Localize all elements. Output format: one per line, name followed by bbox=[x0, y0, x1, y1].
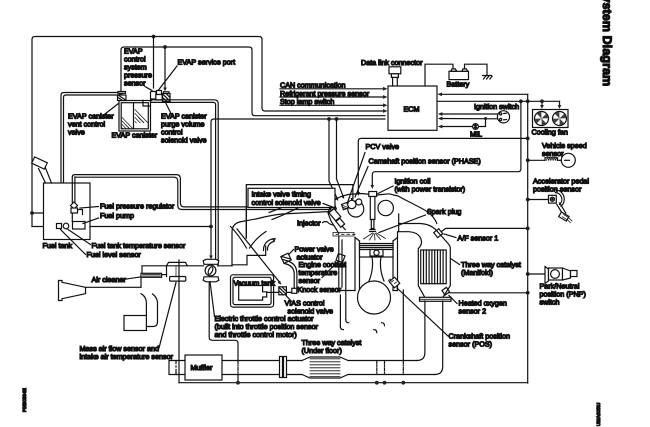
fan drop 1 bbox=[541, 101, 543, 106]
svg-text:valve: valve bbox=[68, 128, 85, 137]
wire to purge solenoid bbox=[164, 47, 166, 89]
svg-text:(Manifold): (Manifold) bbox=[461, 268, 493, 277]
arrow into fuel pump bbox=[85, 225, 89, 229]
svg-text:Stop lamp switch: Stop lamp switch bbox=[280, 97, 334, 106]
svg-text:sensor (POS): sensor (POS) bbox=[449, 340, 493, 349]
right rail bbox=[527, 94, 529, 383]
wire battery to ground bbox=[465, 64, 488, 75]
wire ECM to ignition coil bbox=[372, 101, 521, 186]
dashdot tailpipe bbox=[175, 361, 177, 375]
connecting rod bbox=[369, 257, 384, 281]
fuel pump bbox=[73, 222, 86, 230]
MIL lamp bbox=[473, 124, 479, 130]
crank position sensor bbox=[389, 277, 400, 288]
svg-text:A/F sensor 1: A/F sensor 1 bbox=[458, 234, 499, 243]
leader maf bbox=[159, 283, 176, 349]
cooling fan box bbox=[533, 110, 569, 128]
cooling fan feed wire bbox=[521, 100, 560, 102]
intake collector outline bbox=[232, 212, 330, 266]
junction dot bbox=[335, 117, 339, 121]
data link connector bbox=[389, 67, 401, 86]
duct throttle to collector bbox=[218, 265, 233, 267]
wire to injector bbox=[329, 119, 337, 198]
arrow rail1 into ECM bbox=[383, 109, 388, 113]
VIAS solenoid bbox=[279, 287, 297, 295]
A/F sensor wire bbox=[439, 228, 528, 233]
svg-text:Knock sensor: Knock sensor bbox=[298, 285, 342, 294]
svg-text:Fuel tank: Fuel tank bbox=[43, 241, 73, 250]
wire to fuel level sensor bbox=[32, 213, 66, 223]
wire to EVAP pressure sensor bbox=[153, 37, 155, 89]
junction dot bbox=[209, 225, 213, 229]
camshaft sensor wire bbox=[358, 138, 527, 193]
exhaust pipe down bbox=[417, 301, 443, 375]
pipe tank to VIAS bbox=[267, 291, 292, 293]
svg-text:Fuel tank temperature sensor: Fuel tank temperature sensor bbox=[92, 241, 186, 250]
resonator box bbox=[124, 316, 146, 331]
leader tank temp bbox=[68, 230, 91, 245]
svg-text:Fuel level sensor: Fuel level sensor bbox=[87, 250, 142, 259]
dash dot crossings bbox=[238, 361, 403, 375]
junction dot bbox=[526, 158, 530, 162]
leader valve timing bbox=[323, 204, 334, 208]
wire ECM to battery bbox=[425, 64, 453, 86]
svg-text:Battery: Battery bbox=[447, 80, 470, 89]
svg-text:UBIA0058J: UBIA0058J bbox=[596, 403, 601, 426]
battery bbox=[449, 69, 469, 80]
exhaust flange bbox=[420, 297, 452, 301]
svg-text:Fuel pump: Fuel pump bbox=[100, 211, 134, 220]
cam sprocket small bbox=[348, 200, 356, 208]
fan 1 bbox=[535, 112, 549, 126]
junction dot bbox=[327, 117, 331, 121]
purge spout into collector bbox=[245, 208, 247, 239]
electric throttle control actuator bbox=[203, 259, 219, 282]
mass air flow sensor bbox=[167, 262, 188, 281]
arrow bbox=[438, 117, 443, 121]
junction dot bbox=[163, 45, 167, 49]
under floor catalyst bbox=[302, 357, 348, 378]
leader vent valve bbox=[103, 102, 121, 116]
leader service port bbox=[159, 66, 178, 90]
leader camshaft bbox=[355, 167, 368, 198]
svg-text:EVAP canister: EVAP canister bbox=[112, 131, 158, 140]
wire top rail 1 bbox=[32, 37, 385, 227]
svg-text:Cooling fan: Cooling fan bbox=[532, 128, 568, 137]
arrow purge solenoid bbox=[163, 88, 167, 92]
intake arcs with arrow bbox=[263, 238, 276, 251]
svg-text:Camshaft position sensor (PHAS: Camshaft position sensor (PHASE) bbox=[369, 157, 481, 166]
svg-text:Ignition switch: Ignition switch bbox=[474, 102, 519, 111]
fan drop 2 bbox=[559, 101, 561, 106]
exhaust duct from head bbox=[399, 224, 451, 298]
wire to valve timing solenoid bbox=[337, 119, 344, 196]
leader power valve bbox=[287, 250, 294, 257]
wire MIL to ECM bbox=[440, 119, 486, 127]
svg-text:actuator: actuator bbox=[297, 253, 324, 262]
junction dot bbox=[540, 99, 544, 103]
filler neck bbox=[32, 157, 52, 183]
air cleaner housing bbox=[141, 266, 167, 288]
VVT sprocket bbox=[378, 200, 393, 215]
junction dot bbox=[236, 381, 240, 385]
heated oxygen sensor 2 bbox=[442, 287, 450, 295]
junction dot bbox=[526, 227, 530, 231]
crankshaft circle bbox=[358, 281, 391, 314]
duct air cleaner to MAF bbox=[162, 274, 167, 276]
junction dot bbox=[401, 381, 405, 385]
wire to fuel pump bbox=[88, 226, 211, 228]
leader purge valve bbox=[166, 104, 172, 116]
cam sprocket big bbox=[348, 201, 364, 217]
purge pipe step bbox=[143, 100, 150, 106]
junction dot bbox=[526, 198, 530, 202]
svg-text:PCV valve: PCV valve bbox=[366, 142, 400, 151]
leader throttle bbox=[210, 282, 215, 317]
svg-text:PBIB0594E: PBIB0594E bbox=[22, 388, 27, 412]
svg-text:sensor: sensor bbox=[124, 79, 146, 88]
junction dot bbox=[484, 117, 487, 120]
left drop of bottom rail bbox=[178, 260, 180, 383]
svg-text:Spark plug: Spark plug bbox=[427, 207, 461, 216]
svg-text:solenoid valve: solenoid valve bbox=[161, 136, 207, 145]
svg-text:sensor 2: sensor 2 bbox=[459, 307, 487, 316]
leader bbox=[444, 234, 456, 238]
EVAP pressure sensor symbol bbox=[151, 92, 157, 101]
wire rail 3 bbox=[211, 119, 385, 257]
vacuum tank loop bbox=[231, 275, 274, 307]
junction dot bbox=[526, 99, 530, 103]
svg-text:Data link connector: Data link connector bbox=[361, 58, 423, 67]
svg-text:sensor: sensor bbox=[542, 149, 564, 158]
exhaust pipe cat to elbow bbox=[348, 361, 435, 375]
fuel feed pipe bbox=[72, 177, 75, 203]
air duct bbox=[86, 286, 142, 288]
leader injector bbox=[323, 222, 334, 226]
muffler bbox=[185, 355, 222, 380]
arrow bbox=[383, 87, 388, 91]
svg-text:MIL: MIL bbox=[470, 130, 482, 139]
level sensor symbol bbox=[57, 224, 62, 229]
wire CAN to ECM bbox=[280, 88, 385, 90]
arrow into ignition coil bbox=[371, 185, 375, 189]
ignition switch bbox=[497, 111, 509, 123]
power valve actuator bbox=[281, 253, 291, 263]
junction dot bbox=[526, 291, 530, 295]
engine block bbox=[339, 232, 398, 291]
pipe power valve to VIAS bbox=[285, 261, 297, 288]
vent pipe canister to tank bbox=[61, 93, 118, 184]
arrow into throttle actuator bbox=[209, 256, 213, 260]
svg-text:solenoid valve: solenoid valve bbox=[288, 307, 334, 316]
fan 2 bbox=[553, 112, 567, 126]
heated oxygen sensor 2 wire bbox=[449, 292, 528, 294]
wire top rail 2 bbox=[121, 47, 385, 116]
wire coolant to rail bbox=[345, 262, 347, 320]
wire throttle to bottom rail bbox=[209, 283, 238, 383]
ignition coil symbol bbox=[369, 192, 377, 232]
svg-text:Injector: Injector bbox=[297, 219, 321, 228]
leader PCV bbox=[347, 153, 365, 205]
fuel pipe down from regulator bbox=[71, 213, 73, 222]
arrow bbox=[335, 197, 339, 201]
accelerator pedal sensor bbox=[528, 190, 572, 223]
collector funnel bbox=[231, 227, 267, 249]
junction dot bbox=[152, 35, 156, 39]
purge solenoid symbol bbox=[163, 92, 171, 102]
svg-text:control solenoid valve: control solenoid valve bbox=[252, 198, 321, 207]
svg-text:(Under floor): (Under floor) bbox=[302, 346, 342, 355]
svg-text:intake air temperature sensor: intake air temperature sensor bbox=[80, 352, 174, 361]
wire to VIAS (diagonal) bbox=[237, 229, 280, 282]
EVAP service port symbol bbox=[156, 91, 162, 101]
svg-text:EVAP service port: EVAP service port bbox=[178, 58, 236, 67]
leader VIAS bbox=[286, 296, 292, 302]
resonator duct bbox=[141, 294, 158, 327]
junction dot bbox=[526, 137, 530, 141]
junction dot bbox=[383, 381, 387, 385]
piston bbox=[360, 244, 394, 258]
park neutral position switch bbox=[545, 267, 577, 284]
air horn bbox=[59, 281, 86, 301]
tail pipe bbox=[169, 361, 185, 375]
leader level sensor bbox=[61, 230, 86, 255]
vacuum tank body bbox=[239, 286, 267, 301]
wire refrigerant to ECM bbox=[280, 96, 385, 98]
leader ignition coil bbox=[378, 186, 393, 194]
arrow bbox=[341, 195, 345, 199]
leader bbox=[449, 296, 457, 304]
leader bbox=[83, 218, 99, 224]
leader bbox=[120, 277, 143, 281]
intake runner upper bbox=[269, 192, 334, 213]
EVAP canister bbox=[119, 101, 151, 132]
vehicle speed sensor bbox=[528, 153, 576, 167]
wire battery feed to ECM bbox=[440, 93, 528, 95]
junction dot bbox=[30, 211, 34, 215]
svg-text:and throttle control motor): and throttle control motor) bbox=[215, 330, 297, 339]
wire knock to rail bbox=[339, 295, 341, 327]
cam sprocket tiny bbox=[356, 199, 362, 205]
junction dot bbox=[519, 99, 523, 103]
engine head outline bbox=[328, 194, 437, 234]
vent control valve symbol bbox=[118, 92, 127, 101]
wire ignition switch to ECM bbox=[440, 113, 497, 115]
arrow bbox=[351, 198, 354, 202]
pipe joint flange bbox=[280, 357, 287, 378]
exhaust pipe muffler to cat bbox=[222, 361, 302, 375]
arrow bbox=[383, 95, 388, 99]
svg-text:Muffler: Muffler bbox=[191, 363, 213, 372]
ECM box bbox=[388, 86, 437, 130]
arrow bbox=[438, 112, 443, 116]
injector symbol bbox=[329, 209, 345, 230]
leader bbox=[80, 207, 99, 209]
svg-text:sensor: sensor bbox=[299, 276, 321, 285]
A/F sensor bbox=[434, 229, 443, 238]
duct MAF to throttle bbox=[187, 265, 203, 267]
ground bbox=[483, 76, 493, 80]
fuel tank bbox=[44, 183, 91, 240]
park neutral switch wire bbox=[528, 273, 545, 275]
crank sensor leader bbox=[397, 288, 448, 336]
junction dot bbox=[375, 381, 379, 385]
temp sensor symbol bbox=[63, 223, 69, 229]
arrow bbox=[383, 103, 388, 107]
bottom rail bbox=[179, 382, 528, 384]
svg-text:position sensor: position sensor bbox=[533, 185, 582, 194]
fuel pressure regulator bbox=[71, 202, 83, 215]
leader spark plug bbox=[379, 215, 426, 233]
leader coolant bbox=[322, 260, 340, 278]
arrow bbox=[558, 105, 562, 109]
cylinder head gasket bbox=[333, 233, 355, 237]
svg-text:switch: switch bbox=[540, 298, 560, 307]
leader pressure sensor bbox=[145, 87, 152, 91]
wire crank to rail bbox=[402, 290, 404, 361]
three way catalyst manifold bbox=[421, 250, 447, 284]
intake valve timing label box bbox=[248, 188, 335, 207]
arrow vent valve bbox=[119, 93, 123, 97]
coolant sensor symbol bbox=[336, 254, 345, 263]
spark spray bbox=[364, 233, 386, 240]
wire ignition to ECM 2 bbox=[440, 118, 498, 120]
canister outlet pipe bbox=[151, 100, 219, 266]
arrow bbox=[540, 105, 544, 109]
svg-text:Fuel pressure regulator: Fuel pressure regulator bbox=[100, 202, 175, 211]
wire to fuel tank temperature sensor bbox=[32, 226, 56, 228]
arrow into ECM right bbox=[438, 92, 443, 96]
wire stop lamp to ECM bbox=[280, 104, 385, 106]
valve timing solenoid 2 bbox=[342, 203, 349, 210]
svg-text:ECM: ECM bbox=[404, 105, 420, 114]
wire around label box bbox=[246, 185, 353, 238]
valve timing solenoid 1 bbox=[329, 204, 336, 211]
arrow bbox=[357, 192, 361, 196]
arrow into VIAS bbox=[278, 281, 282, 285]
leader bbox=[451, 259, 460, 265]
svg-text:System Diagram: System Diagram bbox=[600, 0, 614, 86]
junction dot bbox=[526, 272, 530, 276]
svg-text:(with power transistor): (with power transistor) bbox=[395, 185, 466, 194]
arrow bbox=[438, 125, 443, 129]
